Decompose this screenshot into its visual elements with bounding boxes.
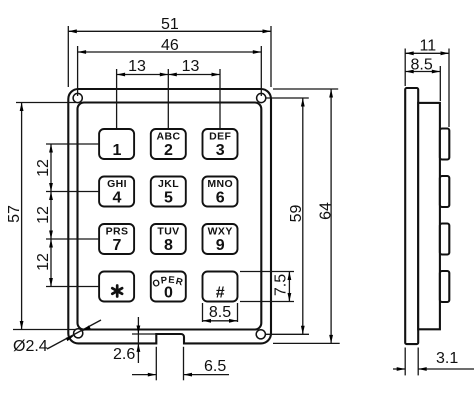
svg-text:DEF: DEF <box>209 131 231 143</box>
dimension 59 (right) <box>266 98 309 334</box>
dimension 57 (left) <box>6 103 76 330</box>
svg-text:7: 7 <box>113 237 122 254</box>
key 0 OPER <box>151 272 186 302</box>
svg-text:JKL: JKL <box>158 178 179 190</box>
svg-text:4: 4 <box>113 190 122 207</box>
side view: key bump row 4 <box>440 271 449 302</box>
dimension 8.5 (side body depth) <box>405 57 440 102</box>
svg-text:64: 64 <box>318 202 335 220</box>
side view: key bump row 2 <box>440 176 449 207</box>
svg-text:3.1: 3.1 <box>436 350 458 367</box>
key hash <box>203 272 238 302</box>
svg-text:#: # <box>216 285 225 302</box>
dimension 12 x3 (left) <box>35 144 99 287</box>
corner hole bottom-left <box>74 329 83 338</box>
svg-text:0: 0 <box>164 285 173 302</box>
svg-text:59: 59 <box>288 205 305 223</box>
svg-text:PRS: PRS <box>106 226 129 238</box>
corner hole top-left <box>73 93 82 102</box>
svg-text:13: 13 <box>128 58 146 75</box>
svg-text:8.5: 8.5 <box>209 304 231 321</box>
side view: keypad body <box>418 103 440 329</box>
key 3 DEF <box>203 129 238 159</box>
svg-text:ABC: ABC <box>157 131 181 143</box>
key 8 TUV <box>151 224 186 254</box>
dimension 46 <box>78 37 262 96</box>
key 1 <box>99 129 134 159</box>
svg-text:9: 9 <box>216 237 225 254</box>
svg-text:12: 12 <box>35 253 52 271</box>
svg-text:11: 11 <box>420 38 437 55</box>
dimension 2.6 (notch depth) <box>113 317 156 363</box>
svg-text:1: 1 <box>113 142 122 159</box>
corner hole bottom-right <box>256 330 265 339</box>
svg-text:6: 6 <box>216 190 225 207</box>
svg-text:12: 12 <box>35 206 52 224</box>
svg-text:WXY: WXY <box>208 226 233 238</box>
svg-text:2: 2 <box>164 142 173 159</box>
dimension 6.5 (notch width) <box>132 347 229 381</box>
svg-text:7.5: 7.5 <box>273 274 290 296</box>
key 9 WXY <box>203 224 238 254</box>
dimension 13 13 <box>117 58 220 128</box>
key 5 JKL <box>151 177 186 207</box>
svg-text:8: 8 <box>164 237 173 254</box>
dimension 64 (right) <box>273 89 340 343</box>
svg-text:12: 12 <box>35 159 52 177</box>
svg-text:13: 13 <box>182 58 200 75</box>
side view: key bump row 1 <box>440 129 449 160</box>
svg-text:Ø2.4: Ø2.4 <box>13 338 48 355</box>
svg-text:8.5: 8.5 <box>411 57 433 74</box>
key 4 GHI <box>99 177 134 207</box>
svg-text:6.5: 6.5 <box>204 358 226 375</box>
svg-text:3: 3 <box>216 142 225 159</box>
side view: key bump row 3 <box>440 224 449 255</box>
svg-text:TUV: TUV <box>157 226 179 238</box>
dimension 7.5 (hash key height) <box>240 272 294 302</box>
svg-text:51: 51 <box>161 16 179 33</box>
key 7 PRS <box>99 224 134 254</box>
side view: front panel slab <box>405 88 418 344</box>
keypad plate outline (front view) with bottom notch <box>68 89 271 343</box>
dimension 51 <box>68 16 271 87</box>
corner hole top-right <box>257 93 266 102</box>
key 2 ABC <box>151 129 186 159</box>
svg-text:5: 5 <box>164 190 173 207</box>
dimension 3.1 (panel thickness) <box>393 348 474 376</box>
dimension 8.5 (hash key width) <box>203 303 238 323</box>
svg-text:57: 57 <box>6 205 23 223</box>
key star <box>99 272 134 302</box>
leader and label for hole diameter 2.4 <box>13 320 101 355</box>
dimension 11 (side total depth) <box>405 38 449 128</box>
bezel (raised key area outline) <box>78 103 262 330</box>
svg-text:46: 46 <box>161 37 179 54</box>
svg-text:GHI: GHI <box>107 178 127 190</box>
svg-text:MNO: MNO <box>207 178 233 190</box>
key 6 MNO <box>203 177 238 207</box>
svg-text:2.6: 2.6 <box>113 346 135 363</box>
